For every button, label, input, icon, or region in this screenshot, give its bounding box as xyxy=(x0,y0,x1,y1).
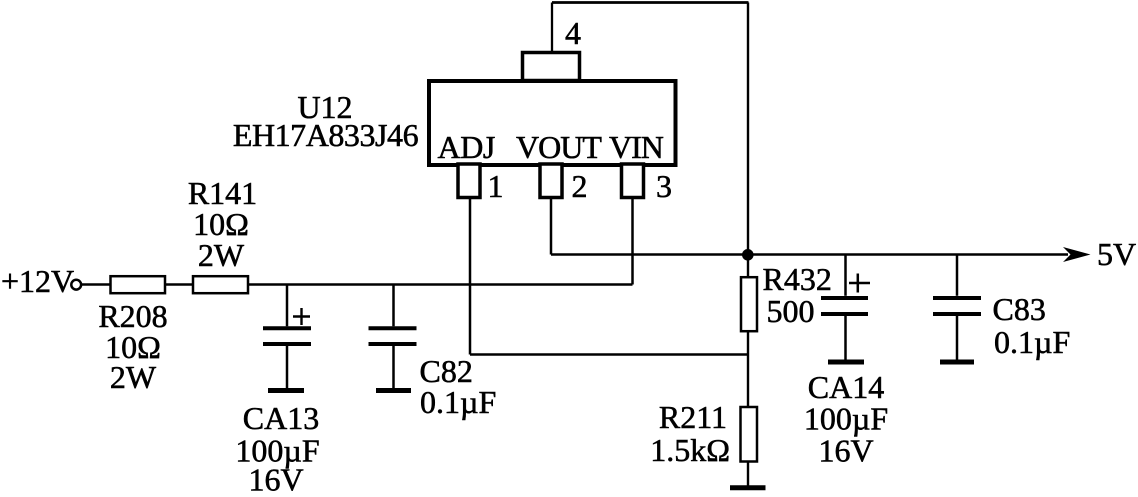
svg-text:0.1µF: 0.1µF xyxy=(420,384,496,420)
resistor R141 xyxy=(193,276,248,293)
capacitor C82 xyxy=(369,285,417,389)
pin 3 xyxy=(622,164,644,198)
svg-text:0.1µF: 0.1µF xyxy=(994,324,1070,360)
wire R432 to R211 xyxy=(747,331,749,407)
svg-text:3: 3 xyxy=(656,168,672,204)
capacitor CA13 xyxy=(263,285,311,389)
svg-text:100µF: 100µF xyxy=(804,401,888,437)
regulator U12 body xyxy=(429,81,676,165)
pin 2 xyxy=(540,164,562,198)
svg-text:500: 500 xyxy=(767,293,815,329)
svg-text:+12V: +12V xyxy=(1,263,74,299)
svg-text:1.5kΩ: 1.5kΩ xyxy=(650,432,730,468)
svg-text:2: 2 xyxy=(572,168,588,204)
svg-text:2W: 2W xyxy=(110,359,157,395)
arrow output 5V xyxy=(1063,247,1091,262)
wire pin2 VOUT down xyxy=(550,199,553,255)
svg-text:16V: 16V xyxy=(248,462,303,493)
wire pin1 ADJ down xyxy=(469,199,472,355)
svg-text:1: 1 xyxy=(488,168,504,204)
capacitor C83 xyxy=(933,255,981,360)
svg-text:16V: 16V xyxy=(818,433,873,469)
wire R211 to ground xyxy=(747,461,749,486)
wire right vertical VIN net xyxy=(747,3,749,277)
pin 1 xyxy=(458,164,480,198)
wire ADJ feedback horizontal xyxy=(470,353,748,356)
ground CA14 xyxy=(828,360,864,365)
capacitor CA14 xyxy=(821,255,870,360)
ground R211 xyxy=(730,485,766,490)
wire top net from pin 4 xyxy=(552,1,749,4)
ground C83 xyxy=(940,360,974,365)
svg-text:ADJ: ADJ xyxy=(438,129,495,165)
svg-text:R432: R432 xyxy=(763,261,832,297)
svg-text:CA13: CA13 xyxy=(243,400,319,436)
wire main input line xyxy=(81,283,633,286)
IC U12 tab pin 4 xyxy=(523,53,580,81)
wire output 5V line xyxy=(551,253,1068,256)
resistor R432 xyxy=(741,277,757,331)
svg-text:C83: C83 xyxy=(993,291,1046,327)
svg-text:4: 4 xyxy=(565,15,581,51)
ground CA13 xyxy=(268,388,304,393)
svg-text:EH17A833J46: EH17A833J46 xyxy=(233,117,419,153)
resistor R208 xyxy=(111,276,166,293)
terminal +12V circle xyxy=(71,280,81,290)
ground C82 xyxy=(376,388,411,393)
svg-text:VIN: VIN xyxy=(609,129,664,165)
svg-text:VOUT: VOUT xyxy=(516,129,602,165)
node 5V junction dot xyxy=(742,249,754,261)
svg-text:5V: 5V xyxy=(1097,236,1136,272)
svg-text:2W: 2W xyxy=(198,237,245,273)
resistor R211 xyxy=(741,407,758,462)
wire pin3 VIN down xyxy=(631,199,634,285)
svg-text:R211: R211 xyxy=(659,399,727,435)
wire pin 4 vertical xyxy=(551,3,553,53)
